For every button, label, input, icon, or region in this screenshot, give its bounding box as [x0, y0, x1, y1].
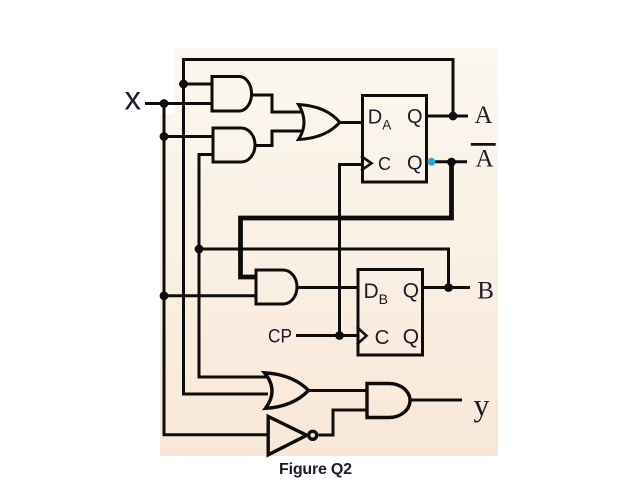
wire: AND2 lower input from B feedback bus [199, 155, 268, 378]
wire: FF1 Qbar output to Abar [435, 160, 467, 163]
FF1 clock triangle [361, 156, 372, 171]
svg-text:B: B [477, 278, 494, 305]
node: x branch to AND2 [160, 132, 169, 141]
svg-text:A: A [475, 102, 493, 129]
svg-text:Figure Q2: Figure Q2 [279, 461, 352, 478]
wire: B feedback from Q of FF2 to vertical bus [199, 249, 449, 288]
svg-text:Q: Q [407, 106, 423, 128]
wire: OR1 output to D input of FF1 [339, 121, 363, 124]
node: A output junction [449, 112, 458, 121]
FF1 Qbar bubble (cyan) [428, 158, 436, 166]
wire: OR4 output to AND5 upper input [308, 389, 367, 392]
svg-text:y: y [474, 387, 490, 423]
wire: branch to AND2 upper input [164, 135, 213, 138]
wire: branch to AND1 upper input [184, 83, 213, 86]
svg-text:Q: Q [403, 325, 419, 348]
wire: branch to AND3 lower input [164, 294, 257, 297]
svg-text:C: C [378, 154, 391, 174]
flip-flop FF1 (A) body [363, 96, 427, 183]
wire: x input to AND1 lower input [145, 102, 212, 105]
node: B output junction [444, 283, 453, 292]
wire: AND3 output to D input of FF2 [297, 286, 359, 289]
FF2 clock triangle [357, 327, 367, 345]
svg-text:Q: Q [407, 153, 423, 175]
wire: AND5 output to y [410, 399, 462, 402]
wire: FF1 Q output to A [426, 115, 468, 118]
flip-flop FF2 (B) body [358, 270, 423, 356]
wire: AND2 output to OR1 lower input [255, 131, 302, 146]
overline of Abar [471, 143, 496, 146]
OR gate 1 (feeding D of FF1) [299, 105, 340, 140]
OR gate 4 (bottom) [265, 373, 309, 409]
AND gate 5 (output y) [367, 384, 410, 418]
node: A feedback to AND1 [179, 80, 188, 89]
junction dots [160, 80, 458, 340]
AND gate 1 (top) [212, 77, 252, 112]
svg-text:C: C [375, 326, 390, 349]
svg-text:x: x [125, 80, 142, 117]
node: x input junction [160, 99, 169, 108]
wire: NOT gate output to AND5 lower input [319, 410, 368, 435]
AND gate 2 [213, 128, 255, 162]
svg-text:CP: CP [268, 326, 292, 347]
shaded figure background [160, 48, 498, 456]
wire: thick Abar feedback from FF1 Qbar to AND3 upper input [241, 162, 452, 277]
node: Abar output junction [447, 158, 456, 167]
svg-text:Q: Q [403, 280, 419, 303]
wire: FF2 Q output to B [422, 286, 470, 289]
wire: vertical bus from x down to NOT gate input [164, 104, 268, 435]
wire: AND1 output to OR1 upper input [252, 95, 302, 112]
AND gate 3 (feeding D of FF2) [256, 270, 297, 304]
wire: A feedback loop (Q of FF1 up over the top, down left side, to OR4 lower input) [184, 60, 454, 395]
svg-text:A: A [476, 146, 494, 173]
node: CP junction [335, 331, 344, 340]
node: B feedback on vertical bus [195, 245, 204, 254]
NOT gate bubble [309, 431, 317, 439]
wire: CP input to FF2 C input [296, 334, 357, 337]
node: x branch to AND3 [160, 291, 169, 300]
NOT gate (inverter) [268, 417, 307, 455]
wire: clock line from CP junction up to FF1 C input [340, 165, 363, 336]
